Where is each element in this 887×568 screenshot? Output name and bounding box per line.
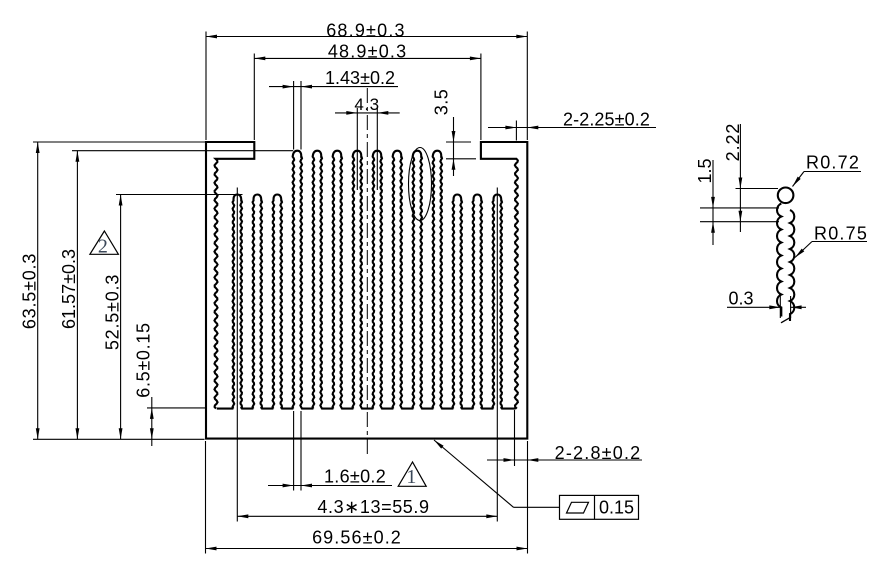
svg-text:1.6±0.2: 1.6±0.2 (324, 467, 386, 487)
dim 63.5±0.3 (37, 142, 39, 439)
svg-text:48.9±0.3: 48.9±0.3 (328, 42, 408, 62)
ext line 48.9 left (253, 54, 255, 141)
fin 6 (333, 151, 343, 409)
svg-text:61.57±0.3: 61.57±0.3 (59, 249, 79, 329)
flatness feature control frame 0.15 (560, 495, 639, 519)
svg-text:2-2.8±0.2: 2-2.8±0.2 (555, 443, 642, 463)
fin 8 (373, 151, 383, 409)
detail callout ellipse around fin 10 (409, 148, 432, 221)
ext line bottom left (33, 438, 205, 440)
svg-text:1.43±0.2: 1.43±0.2 (325, 68, 395, 88)
svg-text:1: 1 (406, 466, 417, 488)
fin 2 (253, 195, 263, 409)
fin 11 (433, 151, 443, 409)
dim 6.5±0.15 base thickness (151, 397, 153, 446)
svg-text:2.22: 2.22 (723, 123, 743, 162)
vertical centerline (366, 88, 368, 455)
dim 1.5 (712, 160, 714, 245)
fin 13 (473, 195, 483, 409)
ext line 4.3 right at fin 8 (376, 108, 378, 190)
ext line 1.6 right (300, 411, 302, 491)
note triangle 1 (398, 462, 426, 486)
dim 4.3 pitch (335, 112, 400, 114)
dim 2-2.25±0.2 wall thickness (488, 127, 656, 129)
dim 2.22 (739, 124, 741, 232)
note triangle 2 (90, 231, 119, 254)
ext line 48.9 right (480, 54, 482, 141)
svg-text:69.56±0.2: 69.56±0.2 (312, 528, 402, 548)
ext line 2-2.25 inner (515, 121, 517, 141)
fin 1 (233, 195, 243, 409)
ext line 61.57 top (72, 150, 293, 152)
fin 9 (393, 151, 403, 409)
flatness leader (434, 440, 514, 507)
dim 4.3*13=55.9 (237, 515, 497, 517)
ext line 4.3 left at fin 7 (356, 108, 358, 190)
dim 61.57±0.3 (76, 151, 78, 440)
ext line 52.5 top (116, 194, 243, 196)
dim 52.5±0.3 (120, 195, 122, 440)
fin 14 (493, 195, 503, 409)
detail view: single fin profile enlarged (777, 204, 781, 317)
ext line 1.43 right (300, 81, 302, 150)
detail extension lines (736, 188, 779, 190)
svg-text:0.15: 0.15 (599, 497, 634, 517)
svg-text:6.5±0.15: 6.5±0.15 (134, 322, 154, 398)
ext line 68.9 left (205, 32, 207, 141)
svg-text:R0.75: R0.75 (814, 224, 868, 244)
dim 3.5 tab height (453, 117, 455, 176)
ext line 69.56 left (205, 441, 207, 554)
fin 5 (313, 151, 323, 409)
dim 0.3 web thickness (779, 296, 781, 318)
svg-text:4.3: 4.3 (354, 95, 379, 114)
svg-text:52.5±0.3: 52.5±0.3 (102, 274, 122, 350)
dim 68.9±0.3 (206, 36, 527, 38)
ext line 1.6 left (293, 411, 295, 491)
dim 48.9±0.3 (254, 57, 481, 59)
dim 2-2.8±0.2 base wall (487, 459, 642, 461)
fin 3 (273, 195, 283, 409)
svg-text:2-2.25±0.2: 2-2.25±0.2 (563, 110, 650, 130)
svg-text:4.3∗13=55.9: 4.3∗13=55.9 (317, 497, 429, 517)
dim 1.6±0.2 fin root (268, 485, 392, 487)
ext line fin 1 centre (236, 188, 238, 522)
svg-text:68.9±0.3: 68.9±0.3 (326, 20, 406, 40)
dim 69.56±0.2 (206, 548, 528, 550)
fin 12 (453, 195, 463, 409)
fin 4 (293, 151, 303, 409)
dim 1.43±0.2 (269, 86, 398, 88)
ext line 68.9 right (526, 32, 528, 141)
svg-text:R0.72: R0.72 (806, 153, 860, 173)
fin 7 (353, 151, 363, 409)
ext line 2-2.8 inner (514, 410, 516, 466)
ext line 3.5 upper (446, 141, 471, 143)
svg-text:1.5: 1.5 (695, 158, 715, 183)
ext line 3.5 lower (446, 158, 476, 160)
ext line 69.56 right (527, 441, 529, 554)
svg-text:0.3: 0.3 (728, 289, 753, 309)
fin 10 (413, 151, 423, 409)
ext line 1.43 left (293, 81, 295, 150)
ext line 63.5 top (33, 141, 206, 143)
heatsink body outline with top mounting tabs (206, 142, 527, 439)
svg-text:63.5±0.3: 63.5±0.3 (19, 253, 39, 329)
ext line 6.5 top (147, 407, 206, 409)
base top surface between fins (217, 408, 516, 410)
ext line fin 14 centre (496, 188, 498, 522)
svg-text:2: 2 (98, 236, 109, 258)
svg-text:3.5: 3.5 (432, 89, 452, 116)
